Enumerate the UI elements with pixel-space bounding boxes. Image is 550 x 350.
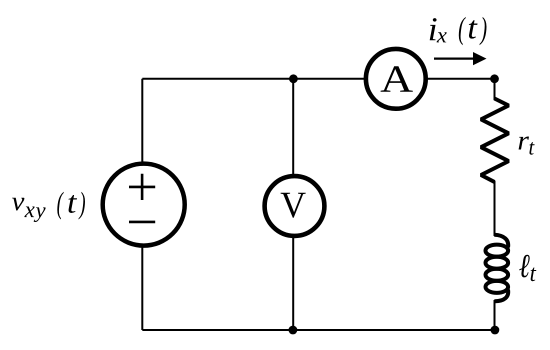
- wire right vertical lower: [494, 300, 496, 330]
- wire bottom rail: [142, 329, 495, 331]
- label r_t: [519, 136, 535, 154]
- label i_x(t): [430, 17, 487, 45]
- wire middle vertical: [292, 79, 294, 330]
- minus sign: [129, 221, 155, 224]
- ammeter A circle: [366, 49, 426, 109]
- junction dot top right: [490, 74, 499, 83]
- resistor r_t zigzag: [481, 99, 509, 183]
- inductor loop 2: [486, 257, 509, 269]
- junction dot bottom middle: [289, 326, 298, 335]
- current arrow i_x: [434, 57, 475, 59]
- inductor loop 3: [486, 269, 509, 281]
- wire top rail: [142, 78, 494, 80]
- junction dot bottom right: [491, 326, 500, 335]
- wire left vertical: [141, 79, 143, 330]
- wire right vertical upper: [494, 79, 496, 100]
- voltmeter letter V: [281, 193, 306, 218]
- label v_xy(t): [12, 192, 85, 222]
- plus sign: [129, 174, 155, 200]
- inductor exit curve: [494, 290, 508, 302]
- wire right vertical middle: [494, 181, 496, 236]
- label l_t: [519, 255, 536, 281]
- inductor loop 1: [486, 245, 509, 257]
- voltage source circle: [103, 164, 185, 246]
- inductor l_t entry curve: [494, 235, 508, 248]
- ammeter letter A: [381, 66, 413, 91]
- junction dot top middle: [289, 74, 298, 83]
- voltmeter V circle: [265, 176, 325, 236]
- inductor loop 4: [486, 281, 509, 293]
